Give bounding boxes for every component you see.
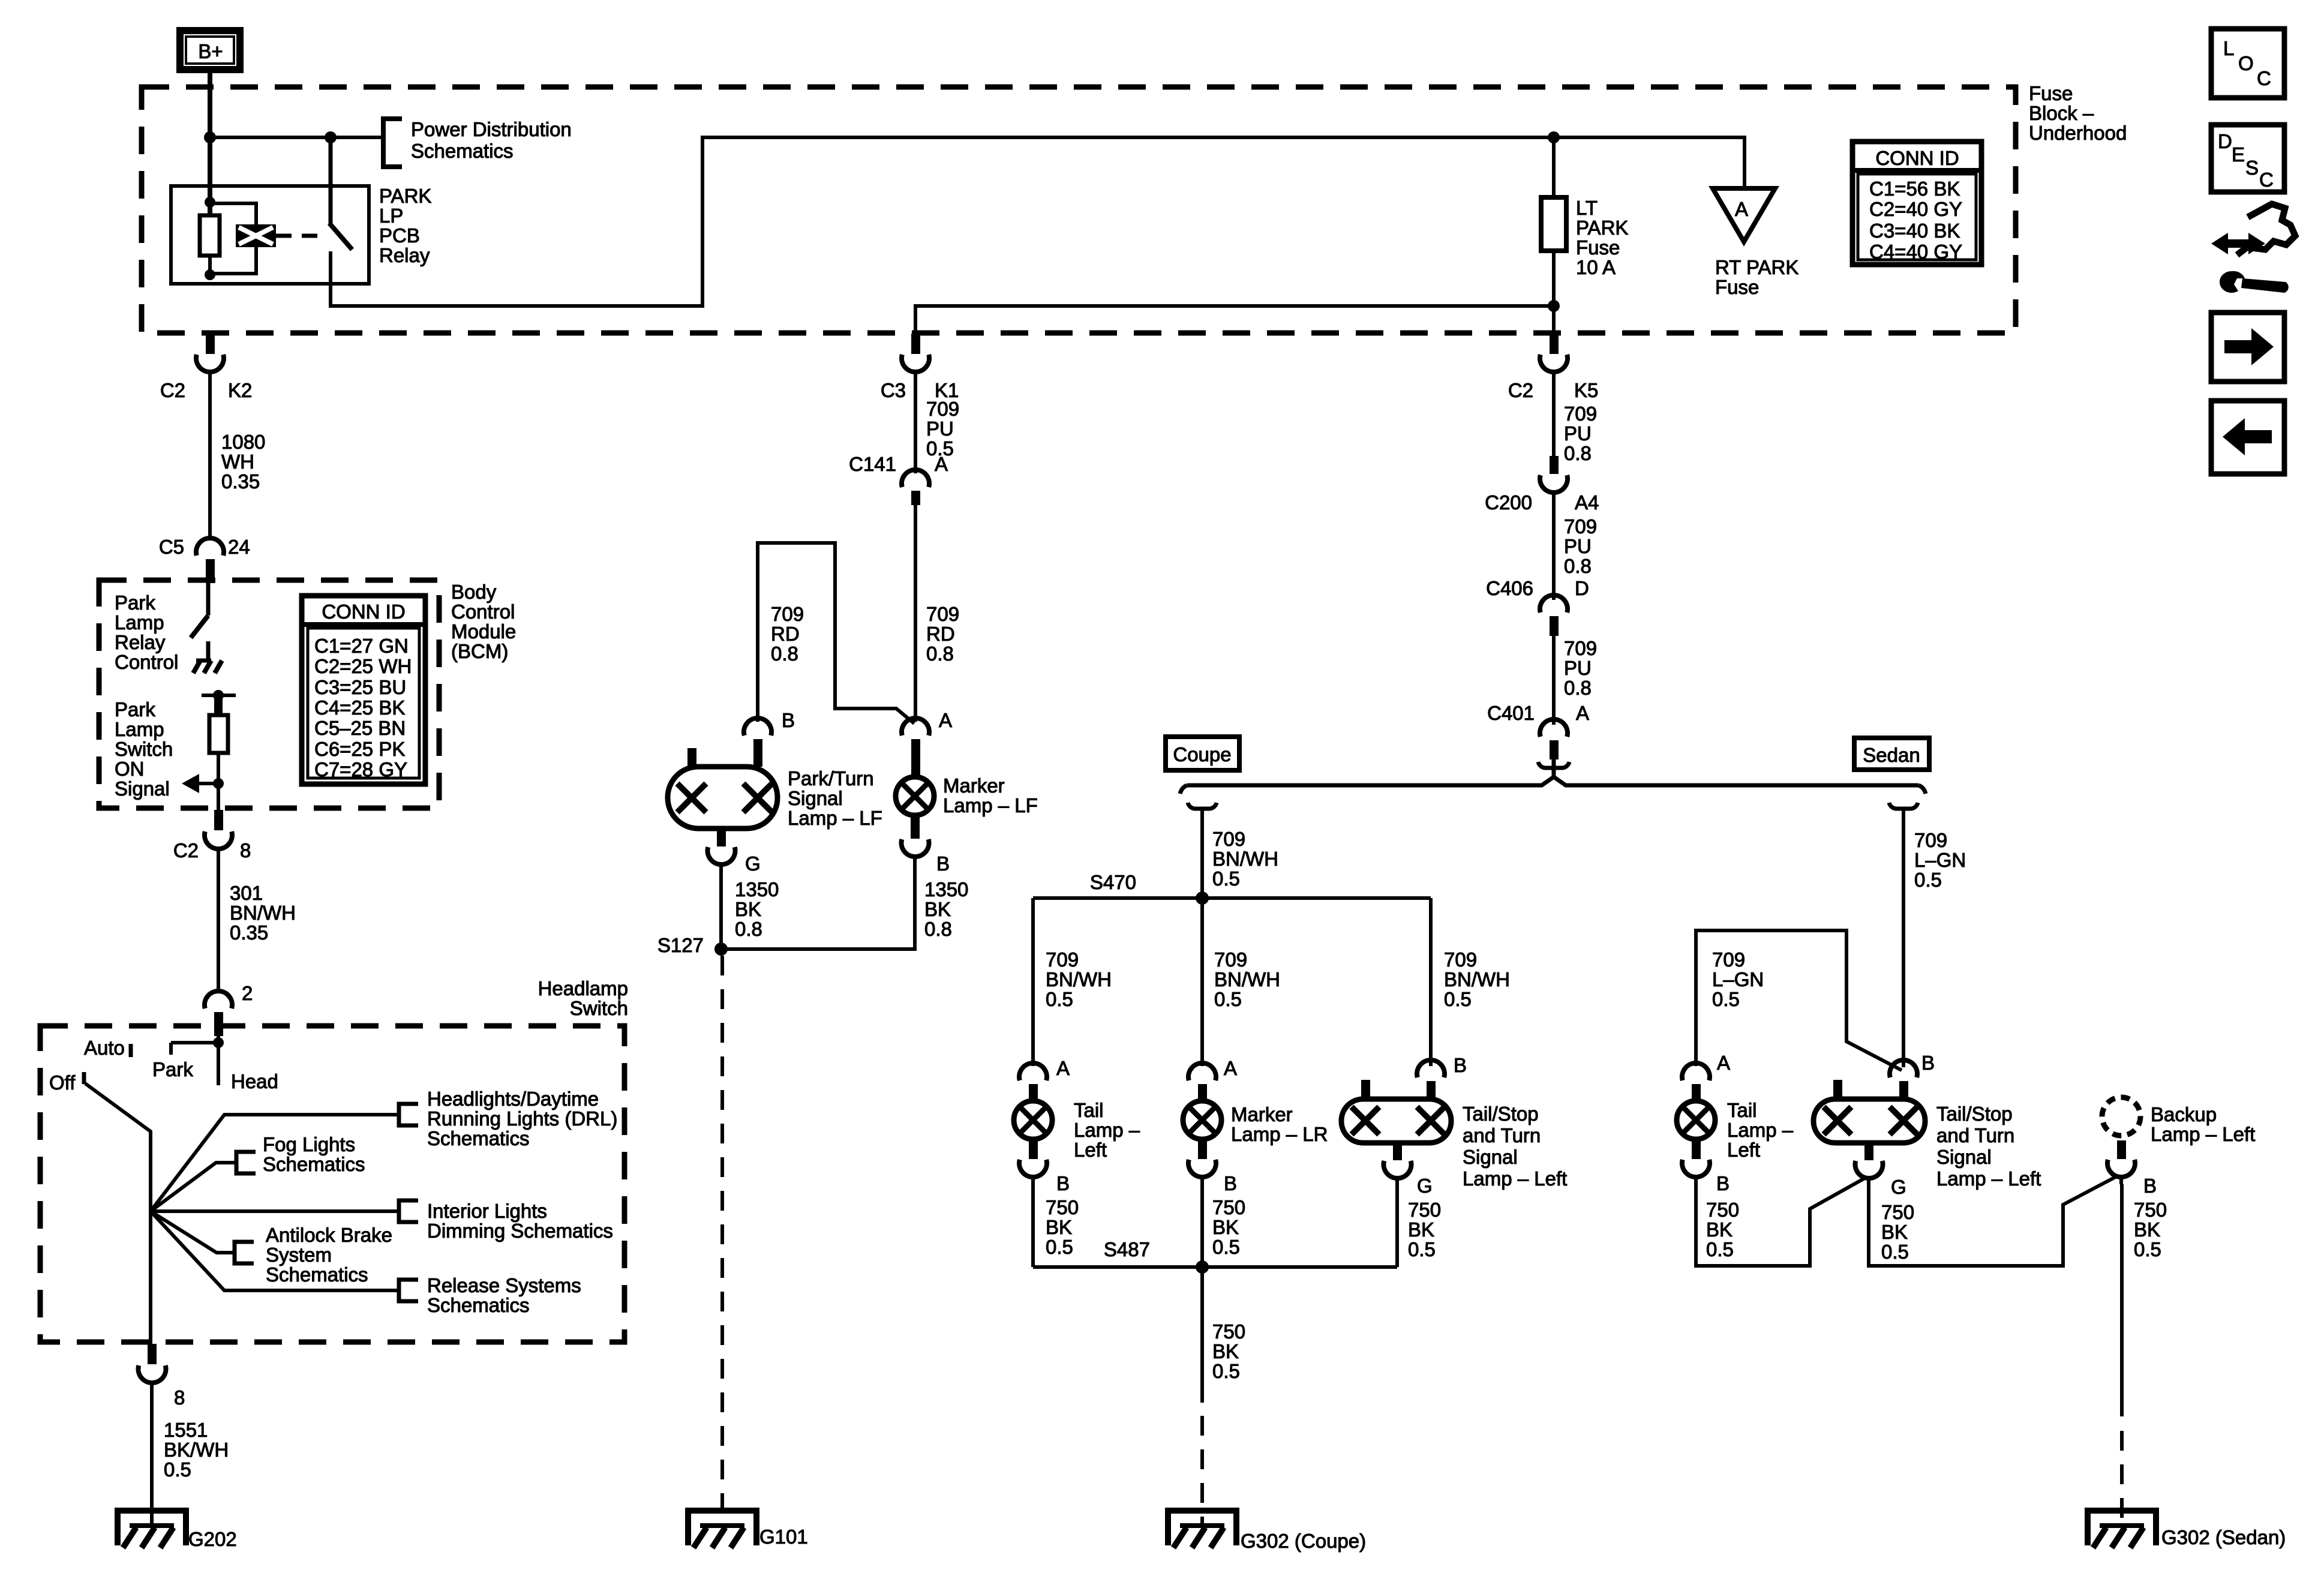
wire fan to Antilock Brake schematics [151, 1211, 235, 1253]
ground G302 (Sedan) [2088, 1511, 2156, 1548]
node junction dot at fused output [1548, 300, 1560, 312]
svg-text:750: 750 [1706, 1199, 1739, 1221]
fuse LT PARK Fuse 10A [1541, 137, 1566, 306]
svg-text:O: O [2238, 52, 2254, 74]
connector pin B coupe tail lamp [1019, 1139, 1047, 1184]
label wire 750 BK 0.5 sedan tail/stop [1881, 1201, 1914, 1263]
label Park/Turn Signal Lamp - LF [788, 767, 882, 829]
wire 709 BN/WH 0.5 to coupe tail lamp [1031, 898, 1035, 1066]
svg-text:Coupe: Coupe [1173, 743, 1231, 766]
svg-text:0.8: 0.8 [924, 918, 952, 940]
connector C401/A [1540, 719, 1568, 760]
wire 301 BN/WH 0.35 [217, 856, 220, 992]
svg-text:C141: C141 [849, 453, 896, 475]
svg-text:BK: BK [2134, 1218, 2160, 1241]
icon LOC legend box [2211, 29, 2284, 98]
svg-text:Left: Left [1727, 1139, 1760, 1161]
label wire 1080 WH 0.35 [221, 431, 265, 493]
svg-text:C3=40 BK: C3=40 BK [1869, 220, 1960, 242]
lamp Tail Lamp - Left (sedan) [1677, 1101, 1715, 1139]
svg-text:C3: C3 [881, 379, 906, 401]
label C2 pin 8 [173, 839, 251, 861]
B+ battery feed box [180, 31, 240, 70]
svg-text:C4=40 GY: C4=40 GY [1869, 241, 1962, 263]
svg-text:ON: ON [115, 758, 145, 780]
svg-text:0.8: 0.8 [771, 643, 798, 665]
wire fused output to C3/K1 [915, 306, 1554, 334]
svg-text:709: 709 [926, 398, 959, 420]
svg-text:0.8: 0.8 [926, 643, 954, 665]
Fuse Block - Underhood dashed box [142, 87, 2016, 333]
svg-text:C1=27 GN: C1=27 GN [314, 635, 409, 657]
svg-text:C5: C5 [159, 536, 184, 558]
wire coupe ground bus [1033, 1265, 1397, 1269]
svg-text:System: System [266, 1244, 332, 1266]
svg-text:0.5: 0.5 [1212, 1360, 1240, 1382]
wire Park position contact [171, 1043, 218, 1055]
svg-text:709: 709 [1046, 948, 1079, 971]
table CONN ID (fuse block) [1852, 142, 1981, 265]
connector pin 8 at headlamp switch bottom [139, 1344, 166, 1390]
ground G202 [118, 1511, 186, 1548]
wire 709 RD 0.8 loop to park/turn lamp B [758, 543, 914, 724]
svg-text:Relay: Relay [379, 244, 430, 266]
svg-text:Schematics: Schematics [266, 1263, 368, 1286]
svg-text:Interior Lights: Interior Lights [427, 1200, 547, 1222]
svg-text:Tail: Tail [1727, 1099, 1757, 1121]
wire splice drop to coupe harness [1188, 803, 1217, 898]
svg-text:8: 8 [174, 1386, 185, 1409]
svg-text:Block –: Block – [2029, 102, 2094, 124]
svg-text:BN/WH: BN/WH [230, 902, 296, 924]
svg-text:0.5: 0.5 [2134, 1238, 2161, 1260]
svg-text:C2=25 WH: C2=25 WH [314, 655, 412, 677]
svg-text:B: B [1224, 1172, 1237, 1194]
node splice S127 [714, 942, 728, 956]
label Park Lamp Relay Control [115, 592, 178, 673]
bracket Fog Lights [236, 1152, 256, 1173]
svg-text:Marker: Marker [1231, 1103, 1293, 1125]
label Tail/Stop and Turn Signal Lamp - Left (coupe) [1463, 1103, 1567, 1190]
svg-text:0.5: 0.5 [164, 1458, 191, 1481]
label wire 750 BK 0.5 sedan tail [1706, 1199, 1739, 1260]
svg-text:1551: 1551 [164, 1419, 208, 1441]
wire coupe distribution bus [1033, 896, 1431, 900]
inductor relay coil (box with X) [210, 203, 276, 274]
label wire 750 BK 0.5 below S487 [1212, 1320, 1245, 1382]
label wire 709 RD 0.8 left [771, 603, 804, 665]
svg-text:Underhood: Underhood [2029, 122, 2127, 144]
svg-text:0.5: 0.5 [1212, 1236, 1240, 1258]
label wire 709 PU 0.8 [1564, 403, 1597, 464]
Body Control Module dashed box [99, 580, 439, 808]
wire 1551 BK/WH 0.5 [150, 1390, 154, 1526]
wire 750 BK 0.5 marker [1200, 1184, 1204, 1267]
svg-text:C6=25 PK: C6=25 PK [314, 738, 405, 760]
svg-text:1350: 1350 [735, 878, 779, 900]
svg-text:Switch: Switch [570, 997, 628, 1019]
wire sedan tail lamp feed branch [1696, 930, 1902, 1070]
svg-text:0.8: 0.8 [1564, 442, 1592, 464]
svg-text:PCB: PCB [379, 224, 420, 247]
svg-text:0.8: 0.8 [1564, 555, 1592, 577]
svg-text:750: 750 [2134, 1199, 2167, 1221]
label wire 709 BN/WH 0.5 tail/stop [1444, 948, 1510, 1010]
svg-text:Park/Turn: Park/Turn [788, 767, 874, 789]
svg-text:Headlights/Daytime: Headlights/Daytime [427, 1088, 599, 1110]
svg-text:Signal: Signal [1463, 1146, 1518, 1168]
svg-text:B: B [1716, 1172, 1730, 1194]
node splice S470 [1196, 891, 1209, 905]
label wire 709 BN/WH 0.5 coupe feed [1212, 828, 1278, 890]
switch park lamp relay control driver [191, 583, 208, 638]
wire Off position contact [82, 1072, 86, 1084]
svg-text:A: A [1576, 702, 1589, 724]
svg-text:Schematics: Schematics [427, 1127, 530, 1149]
svg-text:Fog Lights: Fog Lights [263, 1133, 355, 1155]
wire 750 BK 0.5 backup [2120, 1184, 2124, 1416]
connector pin B of marker lamp LF [902, 815, 929, 864]
svg-text:C: C [2259, 169, 2274, 191]
connector C2/K5 [1540, 334, 1568, 379]
connector pin A coupe tail lamp [1019, 1063, 1047, 1101]
svg-text:C2=40 GY: C2=40 GY [1869, 198, 1962, 220]
svg-text:C406: C406 [1486, 577, 1533, 599]
node splice S487 [1196, 1260, 1209, 1274]
svg-text:Fuse: Fuse [2029, 82, 2073, 104]
svg-text:Lamp – LF: Lamp – LF [788, 807, 882, 829]
label C2 pin K5 [1508, 379, 1599, 401]
connector pin B of park/turn lamp [744, 718, 771, 767]
svg-text:750: 750 [1046, 1196, 1079, 1218]
svg-text:24: 24 [228, 536, 250, 558]
svg-text:LP: LP [379, 205, 403, 227]
svg-text:Fuse: Fuse [1576, 236, 1620, 259]
svg-text:Signal: Signal [115, 778, 170, 800]
wire 709 PU 0.8 to C406 [1552, 500, 1556, 600]
svg-text:C2: C2 [160, 379, 185, 401]
svg-text:L: L [2223, 37, 2234, 59]
wire B+ horizontal to Power Distribution bracket [210, 136, 382, 139]
svg-text:Signal: Signal [788, 787, 843, 809]
label Fog Lights Schematics [263, 1133, 365, 1175]
label Marker Lamp - LF [943, 775, 1038, 816]
svg-text:B: B [2143, 1175, 2157, 1197]
node relay coil top junction [205, 197, 215, 208]
svg-text:S487: S487 [1104, 1238, 1150, 1260]
wire 1080 WH 0.35 [208, 379, 212, 539]
svg-text:RD: RD [926, 623, 955, 645]
svg-text:709: 709 [1564, 515, 1597, 538]
label Power Distribution Schematics [411, 118, 572, 162]
icon service/repair (arrow and wrench) [2211, 204, 2295, 293]
svg-text:G302 (Coupe): G302 (Coupe) [1241, 1530, 1366, 1552]
svg-text:WH: WH [221, 451, 254, 473]
svg-text:709: 709 [1914, 829, 1947, 851]
svg-text:B: B [1454, 1054, 1467, 1076]
svg-text:C7=28 GY: C7=28 GY [314, 758, 407, 781]
svg-text:K2: K2 [228, 379, 252, 401]
svg-text:BK: BK [1706, 1218, 1733, 1241]
connector pin B coupe tail/stop lamp [1417, 1060, 1445, 1099]
svg-text:Running Lights (DRL): Running Lights (DRL) [427, 1107, 617, 1130]
wire dashed to G302 sedan [2120, 1431, 2124, 1526]
svg-text:Lamp – Left: Lamp – Left [1936, 1167, 2041, 1190]
svg-text:750: 750 [1881, 1201, 1914, 1223]
svg-text:BN/WH: BN/WH [1212, 848, 1278, 870]
svg-text:709: 709 [1212, 828, 1245, 850]
svg-text:Sedan: Sedan [1863, 744, 1920, 766]
svg-text:RD: RD [771, 623, 800, 645]
svg-text:RT PARK: RT PARK [1715, 256, 1798, 278]
svg-text:BK/WH: BK/WH [164, 1439, 229, 1461]
wire fan to Fog Lights schematics [151, 1163, 236, 1211]
resistor park lamp switch pull-up [209, 698, 228, 784]
wire 750 BK 0.5 coupe tail [1031, 1184, 1035, 1267]
svg-text:C401: C401 [1487, 702, 1535, 724]
connector pin G coupe tail/stop lamp [1384, 1143, 1412, 1185]
svg-text:BK: BK [735, 898, 761, 920]
label wire 709 BN/WH 0.5 tail [1046, 948, 1112, 1010]
wire 750 BK 0.5 sedan tail/stop [1869, 1176, 2118, 1266]
svg-text:Signal: Signal [1936, 1146, 1992, 1168]
connector C200/A4 [1540, 456, 1568, 500]
table CONN ID (BCM) [302, 596, 425, 784]
svg-text:750: 750 [1212, 1320, 1245, 1343]
svg-text:BK: BK [1212, 1340, 1239, 1362]
svg-text:C4=25 BK: C4=25 BK [314, 697, 405, 719]
label wire 1350 BK 0.8 right [924, 878, 968, 940]
svg-text:A: A [1717, 1052, 1730, 1074]
svg-text:Park: Park [115, 698, 155, 721]
svg-text:Lamp –: Lamp – [1727, 1119, 1794, 1141]
svg-text:PARK: PARK [1576, 217, 1628, 239]
wire 750 BK 0.5 sedan tail [1696, 1178, 1866, 1266]
svg-text:Lamp – Left: Lamp – Left [2151, 1123, 2255, 1145]
svg-text:C: C [2257, 67, 2271, 89]
svg-text:0.5: 0.5 [1444, 988, 1472, 1010]
connector pin B backup lamp [2107, 1140, 2135, 1184]
wire fan to Release Systems schematics [151, 1211, 399, 1290]
label Marker Lamp - LR [1231, 1103, 1328, 1145]
svg-text:Body: Body [451, 581, 497, 603]
svg-text:BK: BK [1212, 1216, 1239, 1238]
svg-text:709: 709 [1712, 948, 1745, 971]
svg-text:Schematics: Schematics [427, 1294, 530, 1316]
svg-text:Control: Control [451, 601, 515, 623]
svg-text:G302 (Sedan): G302 (Sedan) [2161, 1526, 2286, 1548]
bracket Headlights/DRL [399, 1104, 418, 1125]
label wire 750 BK 0.5 coupe tail/stop [1408, 1199, 1441, 1260]
bracket Release Systems [399, 1280, 418, 1301]
svg-text:Head: Head [231, 1070, 278, 1092]
svg-text:709: 709 [1444, 948, 1477, 971]
label Interior Lights Dimming Schematics [427, 1200, 613, 1242]
svg-text:C1=56 BK: C1=56 BK [1869, 178, 1960, 200]
svg-text:Backup: Backup [2151, 1103, 2217, 1125]
wire 709 BN/WH 0.5 to marker lamp LR [1200, 898, 1204, 1066]
lamp Park/Turn Signal Lamp - LF [668, 748, 777, 828]
connector C5/24 into BCM [196, 538, 224, 583]
svg-text:Tail/Stop: Tail/Stop [1463, 1103, 1539, 1125]
svg-text:and Turn: and Turn [1463, 1124, 1541, 1146]
label wire 709 PU 0.8 second [1564, 515, 1597, 577]
svg-text:Module: Module [451, 620, 516, 643]
ground G101 [688, 1511, 756, 1548]
ground internal BCM driver ground [193, 641, 222, 673]
svg-text:and Turn: and Turn [1936, 1124, 2014, 1146]
svg-text:Auto: Auto [84, 1037, 125, 1059]
svg-text:G202: G202 [188, 1528, 237, 1550]
svg-text:BN/WH: BN/WH [1444, 968, 1510, 990]
svg-text:0.5: 0.5 [1212, 867, 1240, 890]
svg-text:0.5: 0.5 [1881, 1241, 1909, 1263]
svg-text:B: B [1921, 1052, 1935, 1074]
label C3 pin K1 [881, 379, 959, 401]
label wire 709 PU 0.5 [926, 398, 959, 460]
svg-text:B: B [936, 852, 950, 875]
svg-text:S: S [2245, 157, 2259, 179]
connector pin B sedan tail/stop lamp [1890, 1060, 1917, 1099]
svg-text:D: D [2218, 130, 2232, 152]
svg-text:0.5: 0.5 [1914, 869, 1942, 891]
Headlamp Switch dashed box [40, 1026, 624, 1342]
wire 709 RD 0.8 to marker lamp [914, 505, 917, 722]
wire fan to Headlights/DRL schematics [151, 1115, 399, 1211]
svg-text:301: 301 [230, 882, 263, 904]
wire harness bus Coupe/Sedan [1180, 777, 1926, 794]
svg-text:709: 709 [1214, 948, 1247, 971]
svg-text:A: A [1735, 198, 1748, 220]
svg-text:C2: C2 [1508, 379, 1533, 401]
svg-text:BN/WH: BN/WH [1046, 968, 1112, 990]
svg-text:A: A [939, 709, 952, 731]
svg-text:Control: Control [115, 651, 178, 673]
connector pin G sedan tail/stop lamp [1855, 1143, 1883, 1185]
node junction dot on B+ vertical [204, 131, 216, 143]
label wire 750 BK 0.5 backup [2134, 1199, 2167, 1260]
switch relay contact blade [329, 223, 352, 250]
connector pin B marker lamp LR [1188, 1139, 1216, 1184]
connector C2/8 at BCM bottom [205, 810, 232, 856]
wire fan to Interior Lights Dimming schematics [151, 1209, 399, 1213]
svg-text:A: A [1056, 1057, 1070, 1079]
svg-text:PU: PU [1564, 422, 1592, 445]
resistor relay damping resistor [200, 202, 220, 275]
svg-text:Lamp –: Lamp – [1074, 1119, 1140, 1141]
svg-text:L–GN: L–GN [1712, 968, 1764, 990]
label Tail Lamp - Left (sedan) [1727, 1099, 1794, 1161]
svg-text:0.5: 0.5 [1046, 1236, 1073, 1258]
svg-text:B: B [782, 709, 795, 731]
connector pin A marker lamp LR [1188, 1063, 1216, 1101]
label wire 709 PU 0.8 third [1564, 637, 1597, 699]
wire switch wiper from Off [85, 1083, 151, 1211]
svg-text:B: B [1056, 1172, 1070, 1194]
svg-text:A: A [1224, 1057, 1237, 1079]
svg-text:0.35: 0.35 [230, 921, 268, 944]
svg-text:0.8: 0.8 [1564, 677, 1592, 699]
wire Auto position contact [129, 1044, 133, 1057]
label LT PARK Fuse 10 A [1576, 197, 1628, 278]
connector pin A sedan tail lamp [1682, 1063, 1710, 1101]
lamp Marker Lamp - LF [896, 777, 934, 815]
wire splice drop to sedan harness [1889, 803, 1918, 1067]
svg-text:PARK: PARK [379, 185, 431, 207]
label C200 pin A4 [1485, 491, 1599, 514]
label wire 301 BN/WH 0.35 [230, 882, 296, 944]
lamp Tail/Stop and Turn Signal Lamp - Left (coupe) [1341, 1080, 1451, 1143]
label RT PARK Fuse [1715, 256, 1798, 298]
svg-text:Lamp: Lamp [115, 718, 164, 740]
svg-text:C2: C2 [173, 839, 199, 861]
icon forward arrow box [2211, 313, 2284, 382]
connector pin 2 into headlamp switch [205, 991, 232, 1036]
svg-text:750: 750 [1212, 1196, 1245, 1218]
svg-text:(BCM): (BCM) [451, 640, 508, 662]
label wire 709 RD 0.8 right [926, 603, 959, 665]
svg-text:Left: Left [1074, 1139, 1107, 1161]
connector pin G of park/turn lamp [708, 828, 735, 872]
svg-text:2: 2 [242, 982, 253, 1004]
svg-text:Switch: Switch [115, 738, 173, 760]
wire switch common feed [217, 1036, 220, 1085]
label wire 1551 BK/WH 0.5 [164, 1419, 229, 1481]
svg-text:750: 750 [1408, 1199, 1441, 1221]
svg-text:C200: C200 [1485, 491, 1532, 514]
svg-text:709: 709 [1564, 637, 1597, 659]
svg-text:Park: Park [115, 592, 155, 614]
wire B+ down to relay [208, 70, 212, 215]
wire 1350 BK 0.8 right [721, 864, 915, 949]
svg-text:PU: PU [1564, 535, 1592, 557]
connector pin A of marker lamp LF [902, 718, 929, 778]
svg-text:Lamp – LF: Lamp – LF [943, 794, 1038, 816]
label Tail/Stop and Turn Signal Lamp - Left (sedan) [1936, 1103, 2041, 1190]
label C401 pin A [1487, 702, 1589, 724]
svg-text:0.5: 0.5 [1214, 988, 1242, 1010]
lamp Tail Lamp - Left (coupe) [1014, 1101, 1052, 1139]
node junction dot at relay switch feed [325, 131, 337, 143]
wire 709 PU 0.8 to C200 [1552, 379, 1556, 456]
bracket Antilock Brake [235, 1242, 254, 1263]
svg-text:PU: PU [1564, 657, 1592, 679]
fuse RT PARK Fuse triangle [1713, 188, 1775, 242]
Power Distribution Schematics bracket [383, 119, 402, 167]
svg-text:Antilock Brake: Antilock Brake [266, 1224, 392, 1246]
svg-text:D: D [1575, 577, 1589, 599]
relay K PARK LP PCB Relay box [171, 186, 369, 284]
svg-text:S470: S470 [1090, 871, 1136, 893]
svg-text:K5: K5 [1574, 379, 1598, 401]
wire 709 PU 0.5 [914, 379, 917, 473]
svg-text:Power Distribution: Power Distribution [411, 118, 572, 140]
connector C406/D [1540, 595, 1568, 636]
svg-text:G: G [745, 852, 761, 875]
node junction dot at LT PARK fuse tap [1548, 131, 1560, 143]
label wire 709 L-GN 0.5 sedan feed [1914, 829, 1966, 891]
svg-text:0.5: 0.5 [1706, 1238, 1734, 1260]
svg-text:A4: A4 [1575, 491, 1599, 514]
label Park Lamp Switch ON Signal [115, 698, 173, 800]
connector pin B sedan tail lamp [1682, 1139, 1710, 1184]
wire fused output down to C2/K5 [1552, 306, 1556, 334]
svg-text:Fuse: Fuse [1715, 276, 1759, 298]
wire dashed ground feed to G101 [720, 956, 724, 1526]
label wire 709 L-GN 0.5 sedan tail [1712, 948, 1764, 1010]
svg-text:G101: G101 [759, 1526, 808, 1548]
svg-text:Release Systems: Release Systems [427, 1274, 581, 1296]
